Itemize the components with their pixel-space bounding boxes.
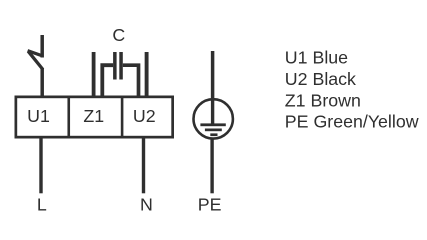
svg-text:PE Green/Yellow: PE Green/Yellow	[285, 112, 419, 132]
svg-text:U1: U1	[27, 106, 50, 126]
earth bar 2	[205, 129, 222, 132]
svg-text:Z1 Brown: Z1 Brown	[285, 90, 361, 110]
svg-text:U2: U2	[133, 106, 156, 126]
svg-text:U1 Blue: U1 Blue	[285, 48, 348, 68]
capacitor lead left to Z1	[102, 65, 113, 95]
thermal switch contact: upper stub	[28, 51, 43, 56]
capacitor C plate left	[113, 52, 117, 80]
terminal box	[16, 97, 173, 137]
terminal divider U1/Z1	[67, 96, 70, 139]
wire L down	[39, 139, 42, 194]
thermal switch contact: blade	[28, 51, 43, 69]
capacitor lead right to U2	[123, 65, 139, 95]
wire PE up	[211, 51, 215, 100]
wire Z1 up	[92, 52, 96, 96]
wire U2 up	[145, 52, 149, 96]
svg-text:L: L	[37, 194, 47, 214]
svg-text:Z1: Z1	[83, 106, 104, 126]
capacitor C plate right	[119, 52, 123, 80]
earth bar 3	[210, 133, 217, 136]
thermal switch contact: lower wire	[40, 68, 44, 96]
PE earth circle	[194, 99, 233, 138]
svg-text:C: C	[112, 25, 125, 45]
wire N down	[142, 139, 145, 194]
svg-text:N: N	[140, 194, 153, 214]
thermal switch contact in L lead: upper wire	[40, 35, 44, 58]
svg-text:PE: PE	[198, 194, 222, 214]
svg-text:U2 Black: U2 Black	[285, 69, 356, 89]
earth stem	[211, 99, 214, 125]
terminal divider Z1/U2	[121, 96, 124, 139]
wire PE down	[210, 139, 213, 194]
earth bar 1	[200, 123, 225, 126]
